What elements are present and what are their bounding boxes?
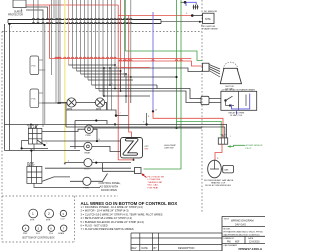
svg-text:PROTECTOR: PROTECTOR — [8, 14, 23, 17]
svg-text:CONTROL PANEL,: CONTROL PANEL, — [99, 181, 122, 185]
svg-text:MTR: MTR — [30, 220, 35, 222]
svg-text:BOTTOM OF CONTROL BOX: BOTTOM OF CONTROL BOX — [23, 237, 56, 240]
svg-text:PWR: PWR — [84, 187, 90, 189]
panel circle 4 — [23, 225, 29, 231]
ladder cross stubs — [104, 65, 131, 103]
svg-text:GAS: GAS — [224, 169, 229, 172]
wire red R3 — [129, 15, 132, 138]
wire green GA — [176, 0, 178, 128]
wire valve link — [221, 168, 222, 170]
wire v x95.5 — [95, 0, 97, 89]
junction dot y124 — [145, 123, 147, 125]
wire black lead y7 — [26, 7, 48, 20]
wire y119 — [75, 121, 107, 125]
node dot at power box — [191, 14, 194, 17]
wire y103 left — [42, 102, 67, 104]
ladder rung 3 — [77, 70, 121, 72]
svg-text:A TEMP SENSOR: A TEMP SENSOR — [246, 144, 263, 147]
wire v x130.8 — [130, 0, 132, 77]
transformer T1 body — [220, 68, 241, 83]
svg-text:BY: BY — [154, 247, 158, 250]
wire v x54 — [53, 0, 55, 20]
wire v x72.5 — [72, 0, 74, 68]
wire black lead y10 — [26, 10, 43, 23]
wire y128 horizontal — [93, 127, 202, 129]
svg-text:HEATING 1 UP: HEATING 1 UP — [211, 181, 226, 184]
junction pilot dot — [184, 1, 187, 4]
svg-text:FLAME SENSE: FLAME SENSE — [203, 28, 219, 31]
transformer T1 connector — [203, 63, 210, 71]
svg-text:FPEW17-1006-A: FPEW17-1006-A — [239, 247, 263, 251]
pressure switch PS1 leads — [39, 60, 45, 70]
flow switch FS1 leads — [39, 93, 43, 103]
wire v x43 — [42, 23, 44, 127]
wire red branch x49.5 — [49, 5, 51, 59]
svg-text:4 = BETA PUMP 18-2 WIRE 24" ST: 4 = BETA PUMP 18-2 WIRE 24" STRIP (2-3) — [81, 216, 133, 220]
svg-text:6 = PLUG - NOT USED: 6 = PLUG - NOT USED — [81, 224, 108, 228]
ladder rung 2 (to transformer) — [73, 68, 203, 72]
ladder rung 6 — [88, 79, 133, 81]
wire v x68.5 faint red — [68, 0, 70, 65]
red arrow to TH1 — [142, 174, 147, 178]
control box dashed outline left — [1, 32, 3, 243]
wire green G3 branch y51 — [125, 51, 202, 61]
svg-text:5: 5 — [112, 83, 113, 85]
control panel dashed outline right — [74, 196, 76, 242]
panel circle 5 — [35, 225, 41, 231]
svg-text:7 = FLOW AND PRESSURE SWITCH W: 7 = FLOW AND PRESSURE SWITCH WIRES — [81, 227, 134, 231]
relay contactor box K3 — [221, 91, 257, 110]
svg-text:DOOR OPEN: DOOR OPEN — [101, 188, 117, 192]
junction dots y103 — [57, 102, 59, 104]
junction at ignition module — [199, 21, 201, 23]
svg-text:24V GAS: 24V GAS — [235, 222, 246, 226]
green sensor wire — [228, 145, 245, 146]
wire v x58.2 — [57, 0, 59, 103]
svg-text:DATE: DATE — [142, 247, 149, 250]
junction y141 — [96, 140, 98, 142]
svg-text:PILOT: PILOT — [246, 148, 253, 150]
svg-text:MODEL: MODEL — [224, 228, 232, 230]
wire v x99 — [98, 0, 100, 91]
svg-text:CLU: CLU — [61, 219, 66, 221]
transformer T1 leads — [209, 65, 220, 78]
svg-text:RELAY IN XFMR: RELAY IN XFMR — [229, 112, 245, 115]
wire between motors — [78, 102, 95, 104]
wire left vertical A — [4, 24, 6, 151]
wire blue B1 — [152, 12, 154, 111]
svg-text:THERMOSTAT: THERMOSTAT — [148, 181, 163, 184]
junction y148 — [21, 147, 23, 149]
svg-text:MTR: MTR — [46, 220, 51, 222]
wire S2 — [70, 174, 108, 182]
pilot wire — [181, 1, 187, 3]
svg-text:DRAWN BY: DRAWN BY — [224, 237, 235, 240]
control box dashed outline right — [201, 0, 203, 213]
ladder rung 5 — [85, 76, 177, 78]
junction S1 right — [95, 162, 97, 164]
wire y124.4 long — [5, 124, 227, 137]
wire v x88 — [87, 0, 89, 80]
gas valve V1 — [208, 160, 222, 178]
wire DS2 — [70, 146, 121, 151]
surge protector box — [13, 0, 26, 8]
svg-text:24 VAC RELAY IN TRANSFORMER: 24 VAC RELAY IN TRANSFORMER — [222, 88, 256, 91]
contactor internals — [224, 99, 226, 101]
wire v x66 — [65, 103, 67, 127]
svg-text:12-8-2016: 12-8-2016 — [249, 241, 260, 243]
mini ladder rung a — [92, 85, 158, 89]
wire green GA branch to tilt — [177, 121, 222, 137]
svg-text:RELAY: RELAY — [27, 164, 35, 167]
junction Z bottom — [133, 159, 135, 161]
wire DS1 right — [93, 129, 97, 141]
svg-text:RELAY: RELAY — [28, 126, 36, 129]
yellow pilot end dot — [64, 163, 66, 165]
junction K2 — [30, 149, 32, 151]
junction y120.5 — [95, 119, 97, 121]
control panel dashed outline bottom — [2, 241, 75, 243]
svg-text:TILT: TILT — [221, 134, 227, 137]
junction bus left — [8, 23, 10, 25]
ladder junction dots — [103, 64, 132, 97]
pump motor M2 — [94, 98, 107, 107]
svg-text:PILOT MUST BE: PILOT MUST BE — [148, 177, 165, 179]
wire v x76.5 — [76, 0, 78, 71]
notes list — [81, 205, 163, 231]
svg-text:PLS: PLS — [32, 66, 37, 68]
panel circle 2 — [45, 209, 54, 218]
wire v x60 — [59, 0, 61, 103]
svg-text:FLS: FLS — [32, 99, 37, 101]
svg-text:CAD NUMBER: CAD NUMBER — [224, 244, 238, 247]
svg-text:PLG: PLG — [49, 233, 53, 235]
svg-text:PMP: PMP — [23, 233, 28, 235]
wire v x124.5 — [124, 0, 126, 77]
blue coil lead below contactor — [236, 110, 238, 114]
svg-text:1: 1 — [11, 27, 12, 29]
junction dot 116,115.6 — [115, 114, 117, 116]
wire v x44.8 — [44, 23, 46, 124]
indicator lamp DS1 — [85, 125, 93, 133]
power supply box U1 — [203, 13, 214, 23]
svg-text:GAS FRYERS W/ MILLIVOLT CONTRO: GAS FRYERS W/ MILLIVOLT CONTROLS — [224, 233, 261, 236]
svg-text:FOR HEAT: FOR HEAT — [148, 186, 160, 189]
svg-text:2: 2 — [48, 212, 50, 216]
svg-text:5 = BURNER SOLENOID 18-4 WIRE: 5 = BURNER SOLENOID 18-4 WIRE 24" STRIP … — [81, 220, 144, 224]
svg-text:3 = CLUTCH 18-2 WIRE 24" STRIP: 3 = CLUTCH 18-2 WIRE 24" STRIP (4-3), TE… — [81, 212, 163, 216]
wire left vertical B — [9, 24, 11, 151]
wire y150.5 — [5, 150, 81, 152]
svg-text:LIMIT SW: LIMIT SW — [164, 148, 173, 150]
red wire hops y58.5 — [55, 57, 116, 58]
mini ladder rung b (to contactor) — [96, 89, 198, 99]
svg-text:PWR: PWR — [86, 135, 92, 137]
tiny pin labels — [11, 6, 231, 163]
gas valve coil box — [223, 165, 234, 173]
plug P1 — [201, 96, 209, 104]
control panel dashed outline top — [2, 195, 118, 197]
relay K1 armature — [37, 140, 45, 145]
svg-text:MTR: MTR — [96, 108, 101, 111]
wire y168.2 — [45, 167, 131, 169]
thermostat box TH1 — [135, 168, 142, 174]
wire K1 out right — [42, 129, 85, 131]
svg-text:MTA: MTA — [205, 17, 211, 21]
svg-text:6: 6 — [68, 161, 69, 163]
svg-text:FRYMASTER DEAN SR42G, SR52G, F: FRYMASTER DEAN SR42G, SR52G, FPP345 — [224, 231, 263, 234]
wire v x111.5 — [111, 0, 113, 110]
svg-text:DESCRIPTION: DESCRIPTION — [178, 247, 195, 250]
transformer T1 dashed circle — [223, 62, 238, 77]
wire y127 long — [66, 127, 225, 138]
wire red y61 to transformer — [118, 61, 202, 66]
svg-text:WIRING DIAGRAM: WIRING DIAGRAM — [231, 219, 253, 223]
switch S1 — [84, 159, 92, 167]
contactor Z box — [121, 138, 143, 158]
relay K2 box — [27, 166, 42, 183]
wire red y67.5 — [121, 67, 150, 69]
red wire hops y61 — [119, 60, 182, 61]
wire bus left drop — [8, 20, 10, 25]
svg-text:24V REDUNDANT GAS VALVE: 24V REDUNDANT GAS VALVE — [204, 179, 234, 182]
indicator lamp DS2 — [84, 142, 92, 150]
svg-text:DRAIN: DRAIN — [58, 232, 65, 235]
wire K2 top lead — [30, 151, 32, 167]
wire to power box — [192, 15, 202, 17]
relay K2 armature — [42, 177, 70, 182]
junction green GB dot — [175, 127, 177, 129]
wire bus step — [160, 20, 162, 24]
wire red y58.5 — [50, 58, 192, 60]
wire K1 bottom lead — [33, 144, 35, 151]
vertical wires top bundle — [34, 0, 131, 127]
svg-text:24: 24 — [155, 110, 157, 112]
svg-text:PILOT: PILOT — [84, 169, 91, 171]
svg-text:3: 3 — [116, 67, 117, 69]
svg-text:HEAT: HEAT — [85, 151, 91, 154]
wire y148.4 — [22, 147, 48, 149]
mini ladder rung c (to contactor) — [99, 91, 198, 103]
ignitor component — [193, 5, 199, 10]
wire green G3 — [124, 0, 126, 51]
blower motor M1 — [66, 98, 79, 107]
svg-text:HIGH TEMP: HIGH TEMP — [164, 145, 176, 147]
wire black bus y23 — [8, 23, 161, 25]
junction blue end — [152, 110, 154, 112]
wire v x51.5 — [51, 0, 53, 75]
wire v x91.5 — [91, 0, 93, 85]
svg-text:24 VAC COIL: 24 VAC COIL — [230, 114, 243, 117]
contactor Z element — [123, 139, 138, 156]
blue wire in contactor — [232, 94, 250, 109]
svg-text:7: 7 — [93, 160, 94, 162]
wire red R2 — [120, 0, 122, 91]
wire v x56 — [55, 0, 57, 103]
panel circle 1 — [29, 209, 38, 218]
panel circle 7 — [61, 225, 67, 231]
svg-text:1 = INCOMING POWER - 10-4 WIRE: 1 = INCOMING POWER - 10-4 WIRE 24" STRIP… — [81, 205, 143, 209]
mini ladder rung d — [103, 95, 150, 97]
svg-text:1: 1 — [32, 212, 34, 216]
panel circle 3 — [60, 210, 66, 216]
svg-text:2: 2 — [120, 113, 121, 115]
wire black bus y19.5 — [8, 19, 161, 21]
svg-text:2 = MOTOR - 10-4 WIRE 24" STRI: 2 = MOTOR - 10-4 WIRE 24" STRIP (4-3) — [81, 209, 129, 213]
wire K1 left elbow — [22, 141, 29, 149]
wire hop bumps on buses — [32, 18, 132, 23]
svg-text:DATE: DATE — [248, 237, 254, 240]
wire red R1 — [118, 5, 133, 160]
wire K2 bottom — [34, 183, 100, 187]
wire v x80.5 — [80, 0, 82, 74]
flow switch FS1 — [30, 89, 39, 108]
wire y110 — [66, 110, 116, 116]
wire v x103 — [102, 0, 104, 96]
wire x147 stub — [146, 113, 148, 124]
title block frame — [222, 216, 265, 251]
panel circle 6 — [48, 225, 54, 231]
junction green GA dot — [175, 76, 177, 78]
wire y115.6 — [116, 115, 128, 117]
junction y124.4 — [114, 123, 116, 125]
wire K1 out 2 — [42, 140, 121, 142]
switch S2 — [83, 177, 91, 185]
svg-text:NC SENSOR: NC SENSOR — [204, 11, 217, 13]
wire red from blue node — [153, 111, 223, 137]
wire v x115 — [114, 0, 116, 65]
revision table — [131, 233, 222, 251]
wire red bus y15 — [118, 15, 192, 17]
wire S1 — [65, 162, 131, 164]
wire v x38 — [37, 0, 39, 23]
svg-text:1: 1 — [230, 136, 231, 138]
svg-text:REV: REV — [132, 247, 137, 250]
svg-text:MTR: MTR — [67, 108, 72, 111]
wire red to gas valve — [215, 144, 222, 160]
svg-text:24V ELEC IGN W/MODULE: 24V ELEC IGN W/MODULE — [205, 185, 232, 187]
control box dashed outline top — [2, 31, 202, 33]
wire motor out — [105, 103, 107, 111]
svg-text:TITLE: TITLE — [224, 218, 230, 220]
svg-text:LIT BEFORE: LIT BEFORE — [148, 179, 161, 181]
svg-text:4: 4 — [128, 75, 129, 77]
wire motor feed — [58, 102, 67, 104]
wire to thermostat — [103, 163, 135, 172]
svg-text:MJF: MJF — [235, 241, 240, 243]
wire v x33.5 — [33, 0, 35, 23]
wire v x107.5 — [107, 0, 109, 110]
wire lamp loop vertical — [74, 121, 76, 150]
wire green GB — [144, 0, 182, 169]
wire yellow pilot — [64, 0, 66, 164]
wire v x84.5 — [84, 0, 86, 77]
junction K1 — [43, 144, 45, 146]
pilot assembly blue bracket — [186, 2, 196, 6]
ladder rung 1 — [69, 64, 116, 66]
wire red L1 top — [26, 4, 118, 6]
wire bus continuation to ignition module — [161, 22, 203, 24]
svg-text:WILL CALL: WILL CALL — [148, 184, 160, 187]
relay K1 box — [28, 128, 42, 144]
svg-text:AS SEEN WITH: AS SEEN WITH — [100, 185, 119, 189]
pressure switch PS1 — [30, 56, 39, 75]
ladder rung 4 — [81, 73, 127, 75]
